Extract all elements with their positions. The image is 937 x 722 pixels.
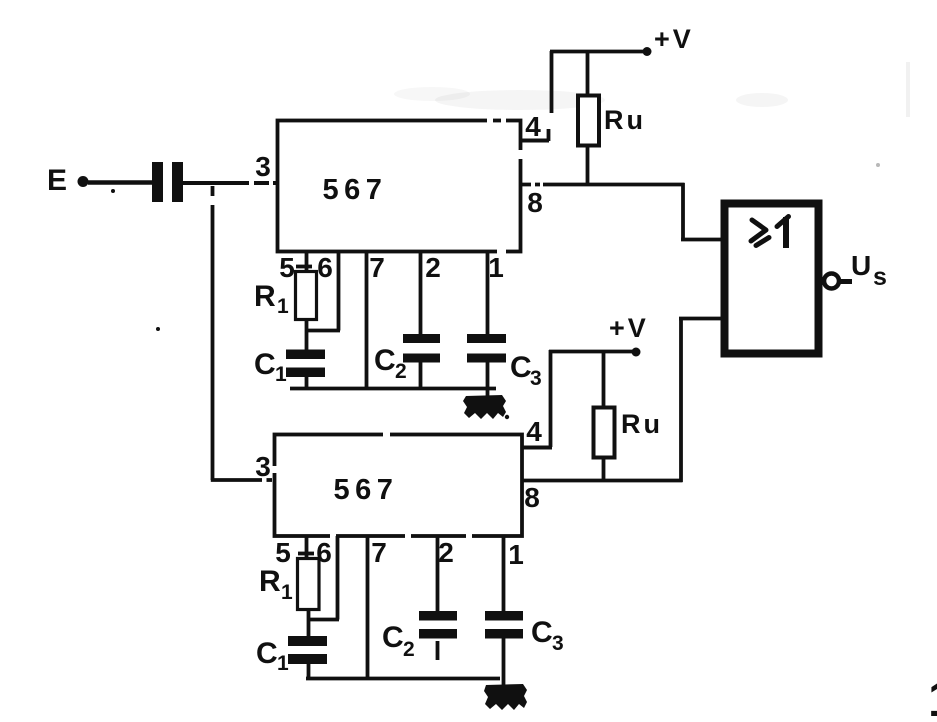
U1 pin 7 wire to bus — [365, 252, 369, 389]
resistor Ru bottom lead — [586, 145, 590, 186]
svg-text:3: 3 — [255, 451, 271, 482]
+V supply rail top — [550, 50, 647, 54]
speck near node A column — [156, 327, 160, 331]
wire gate output to Us — [839, 279, 852, 284]
svg-text:1: 1 — [508, 539, 524, 570]
svg-text:+V: +V — [654, 24, 694, 54]
wire node A vertical down to U2 pin 3 (dash at top) — [211, 186, 215, 196]
capacitor C2 (lower) plates — [419, 611, 457, 621]
svg-text:E: E — [47, 164, 67, 197]
svg-text:3: 3 — [530, 367, 542, 390]
wire U2 pin 8 to OR gate lower input — [522, 479, 683, 483]
ground symbol (upper) — [463, 395, 509, 419]
U2 pin 2 wire to C2 — [436, 536, 440, 612]
+V terminal dot top — [643, 47, 652, 56]
resistor Ru (lower) body — [594, 408, 615, 458]
svg-text:2: 2 — [438, 537, 454, 568]
svg-text:+V: +V — [609, 313, 649, 343]
wire C1 lower to bus — [307, 664, 311, 679]
capacitor C3 (lower) plates — [485, 611, 523, 621]
svg-text:2: 2 — [403, 638, 415, 661]
wire horizontal into U2 pin 3 — [211, 478, 262, 482]
ground bus U1 — [290, 387, 496, 391]
svg-text:U: U — [851, 250, 871, 281]
OR gate U3 body — [725, 204, 819, 354]
svg-text:Ru: Ru — [604, 105, 646, 135]
wire pin4 vertical up to +V rail — [550, 51, 554, 113]
wire R1 lower bottom to C1 — [307, 608, 311, 638]
capacitor C1 (upper) plates — [286, 350, 325, 360]
svg-text:3: 3 — [552, 632, 564, 655]
svg-text:4: 4 — [525, 111, 541, 142]
svg-text:4: 4 — [526, 416, 542, 447]
svg-text:Ru: Ru — [621, 409, 663, 439]
svg-text:7: 7 — [369, 252, 385, 283]
svg-text:2: 2 — [425, 252, 441, 283]
svg-text:C: C — [256, 637, 278, 670]
svg-text:C: C — [510, 351, 532, 384]
wire C2 to bus — [419, 362, 423, 389]
wire C1 to ground bus — [305, 377, 309, 389]
svg-text:R: R — [259, 565, 281, 598]
svg-text:1: 1 — [275, 363, 287, 386]
svg-text:6: 6 — [316, 537, 332, 568]
svg-text:C: C — [254, 348, 276, 381]
+V terminal dot lower — [632, 348, 641, 357]
wire U1 pin 8 to OR gate input — [521, 183, 685, 187]
node E terminal dot — [78, 176, 89, 187]
U1 pin 5 stub — [305, 252, 309, 272]
wire +V rail down to U2 pin 4 — [549, 350, 553, 447]
svg-text:C: C — [382, 621, 404, 654]
ground bus U2 — [306, 677, 500, 681]
capacitor C1 (lower) plates — [288, 636, 327, 646]
U1 pin 1 wire to C3 — [486, 252, 490, 335]
svg-text:1: 1 — [277, 652, 289, 675]
OR gate label greater-or-equal-1 — [751, 220, 766, 241]
resistor Ru (upper) body — [578, 96, 599, 146]
svg-text:567: 567 — [334, 474, 399, 506]
resistor Ru top lead — [586, 51, 590, 96]
capacitor C2 (upper) plates — [403, 334, 440, 343]
resistor Ru lower top lead — [602, 351, 606, 408]
svg-text:2: 2 — [395, 360, 407, 383]
resistor R1 (upper) body — [296, 272, 317, 320]
svg-text:R: R — [254, 280, 276, 313]
wire U2 pin 6 down and left to R1 bottom — [336, 536, 340, 620]
ground symbol (lower) — [484, 684, 527, 710]
wire E terminal to coupling capacitor — [88, 180, 153, 185]
svg-text:s: s — [873, 263, 887, 291]
wire R1 bottom to C1 — [305, 319, 309, 351]
wire capacitor to pin 3 of U1 with junction node A — [183, 181, 278, 185]
capacitor C3 (upper) plates — [467, 334, 506, 343]
U2 pin 1 wire to C3 — [502, 536, 506, 612]
speck — [111, 189, 115, 193]
svg-text:C: C — [531, 616, 553, 649]
svg-text:6: 6 — [317, 252, 333, 283]
U2 pin 4 stub — [522, 446, 552, 450]
svg-text:8: 8 — [524, 482, 540, 513]
svg-text:8: 8 — [527, 187, 543, 218]
op-amp U2 567 tone decoder box — [275, 435, 523, 537]
svg-text:567: 567 — [323, 174, 388, 206]
svg-text:1: 1 — [277, 295, 289, 318]
svg-text:1: 1 — [928, 671, 937, 722]
U1 pin 2 wire to C2 — [419, 252, 423, 335]
U1 pin 4 stub wire — [521, 139, 549, 143]
capacitor C input coupling right plate — [172, 162, 183, 202]
svg-text:5: 5 — [275, 537, 291, 568]
svg-text:3: 3 — [255, 151, 271, 182]
svg-text:5: 5 — [279, 252, 295, 283]
capacitor C input coupling left plate — [152, 162, 163, 202]
resistor R1 (lower) body — [298, 559, 320, 610]
wire C3 lower to bus and ground — [502, 638, 506, 686]
resistor Ru lower bottom lead — [602, 457, 606, 482]
wire U1 pin 6 down and left to R1 bottom — [337, 252, 341, 331]
svg-text:C: C — [374, 344, 396, 377]
op-amp U1 567 tone decoder box — [278, 121, 521, 252]
wire C2 lower dashed to bus — [436, 641, 440, 660]
OR gate output bubble — [824, 274, 839, 289]
svg-text:7: 7 — [371, 537, 387, 568]
svg-text:1: 1 — [281, 581, 293, 604]
U2 pin 7 wire to bus — [366, 536, 370, 679]
faint scanner smudges — [394, 62, 910, 167]
wire C3 to bus and ground — [486, 362, 490, 396]
U2 pin 5 stub — [305, 536, 309, 559]
svg-text:1: 1 — [488, 252, 504, 283]
